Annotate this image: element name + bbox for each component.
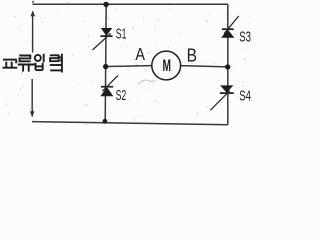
svg-text:S1: S1 — [116, 25, 127, 42]
svg-text:A: A — [135, 45, 145, 65]
svg-text:M: M — [163, 56, 172, 74]
svg-text:S4: S4 — [239, 87, 251, 104]
svg-text:S2: S2 — [116, 87, 127, 104]
svg-text:B: B — [187, 45, 197, 66]
svg-text:S3: S3 — [239, 28, 251, 45]
